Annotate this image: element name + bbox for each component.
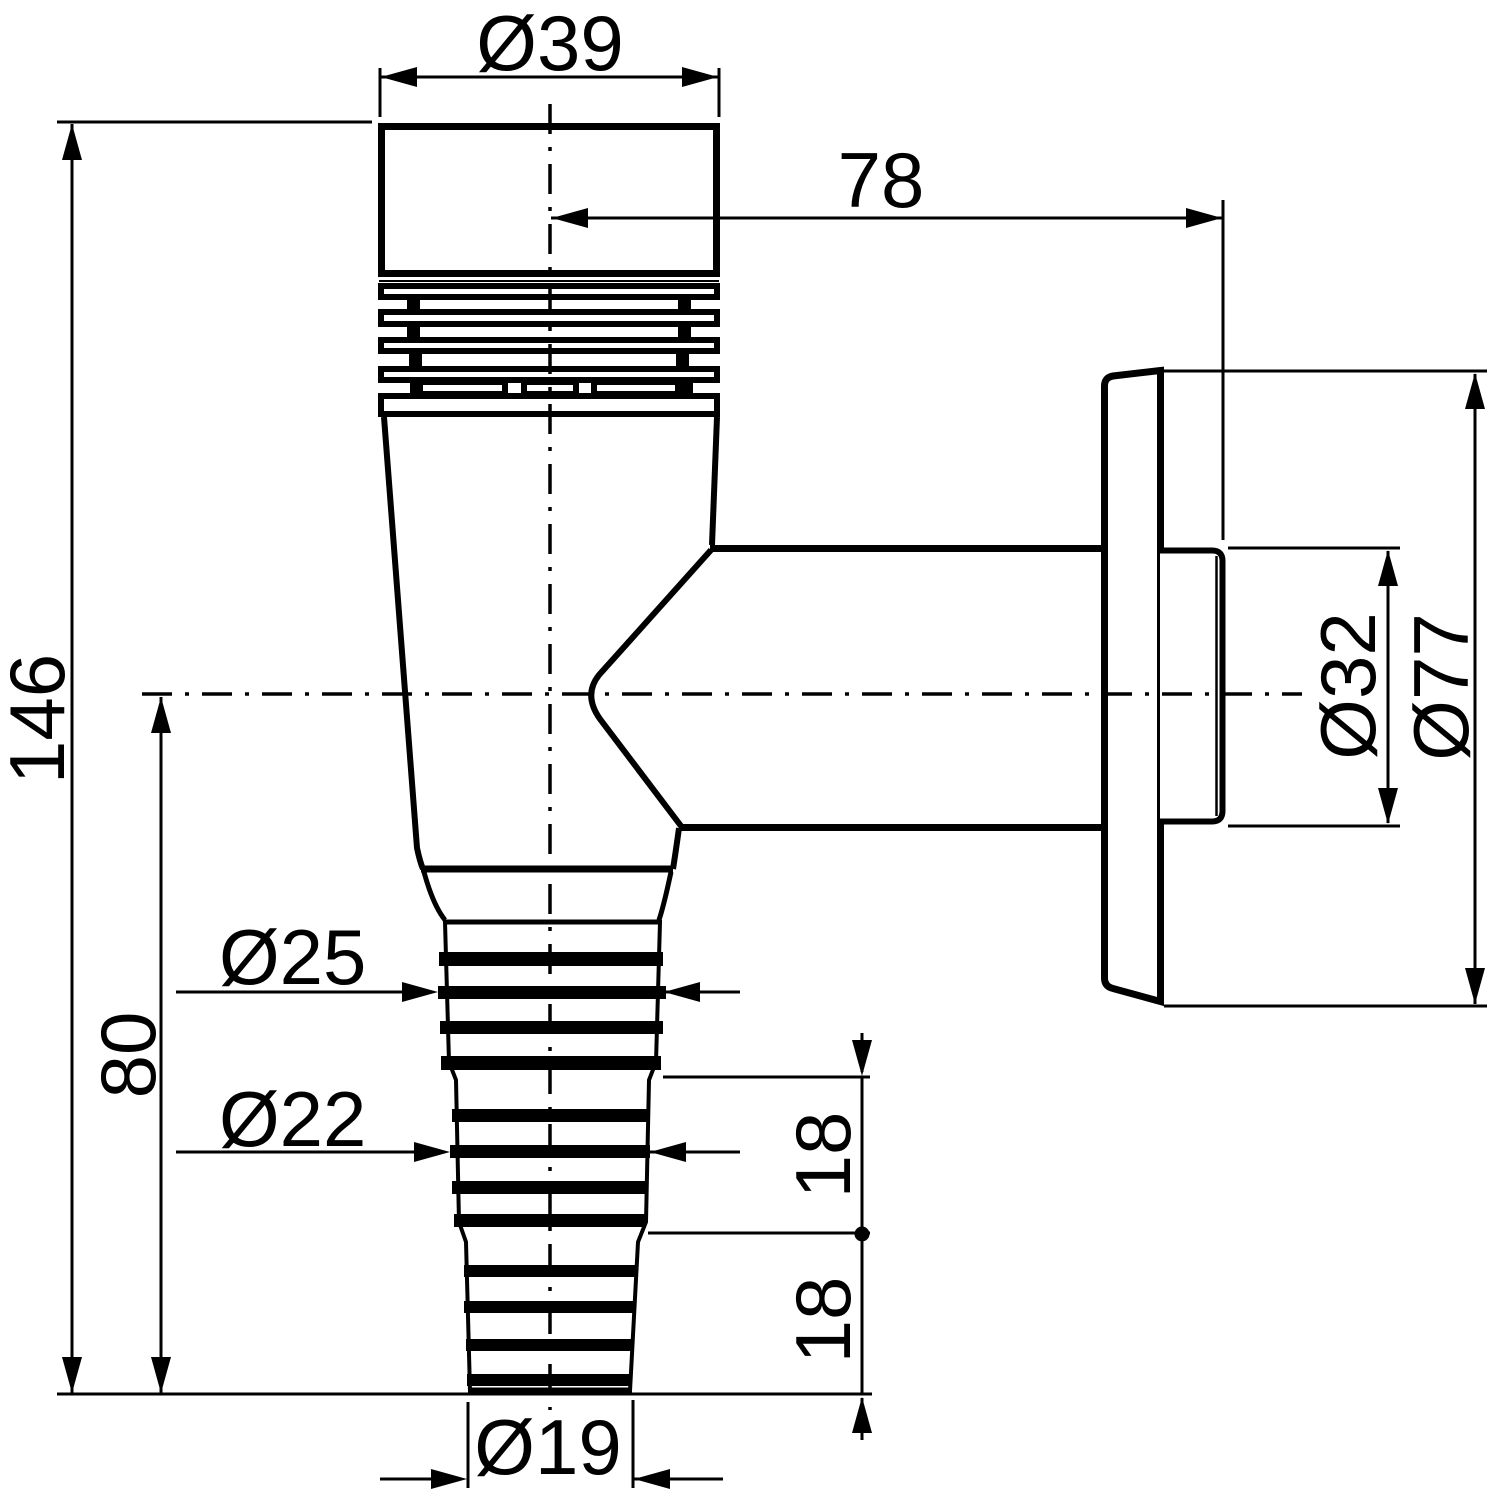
hose cone top line — [445, 920, 660, 925]
pipe stub through flange — [1160, 551, 1223, 822]
horizontal centerline — [142, 692, 1302, 696]
dim Ø77 extension lines — [1164, 370, 1487, 373]
svg-text:Ø25: Ø25 — [219, 913, 366, 1001]
hose cone bottom edge — [469, 1388, 631, 1395]
grill slat row 5 — [381, 396, 717, 414]
dim 146 extension line top — [57, 121, 372, 124]
cap (top cylinder body) — [379, 127, 719, 282]
dim 146 arrows — [62, 124, 82, 160]
grill slat row 4 — [381, 369, 717, 380]
dim Ø39 extension lines — [379, 68, 382, 117]
grill slat row 2 — [381, 312, 717, 324]
dim Ø19 extension lines — [467, 1402, 470, 1488]
bottom shared extension line — [57, 1393, 872, 1396]
grill connector stubs left — [407, 296, 423, 397]
dim 78 extension line — [1222, 200, 1225, 540]
dim Ø32 line — [1387, 551, 1390, 823]
grill bottom plate right — [594, 382, 690, 394]
grill bottom plate middle — [524, 382, 576, 394]
dim Ø32 arrows — [1378, 550, 1398, 586]
dim 78 arrows — [552, 208, 588, 228]
svg-text:80: 80 — [84, 1012, 172, 1099]
svg-text:146: 146 — [0, 654, 81, 784]
wall flange plate — [1105, 371, 1161, 1002]
dim Ø39 line — [380, 76, 719, 79]
outlet pipe top edge — [710, 545, 1106, 552]
body right edge below pipe — [673, 828, 679, 869]
dim Ø39 arrows — [381, 67, 417, 87]
svg-text:Ø77: Ø77 — [1397, 613, 1485, 760]
body-to-pipe chevron transition — [591, 550, 711, 826]
svg-text:Ø22: Ø22 — [219, 1075, 366, 1163]
dim 18 boundary line middle — [648, 1232, 870, 1235]
collar left side — [424, 872, 445, 920]
dim 78 line — [551, 217, 1223, 220]
dim Ø77 line — [1474, 374, 1477, 1004]
vertical centerline — [548, 104, 552, 1410]
outlet pipe bottom edge — [679, 824, 1106, 831]
grill bottom plate left — [415, 382, 505, 394]
dim 18 boundary line upper — [663, 1076, 870, 1079]
hose cone outline — [445, 922, 660, 1391]
dim 146 line — [71, 124, 74, 1393]
tapered body left edge — [384, 417, 423, 869]
dim Ø25 line right — [665, 991, 740, 994]
svg-text:18: 18 — [779, 1112, 867, 1199]
collar top line — [421, 866, 673, 873]
stub chamfer line — [1215, 556, 1218, 816]
dim 18 vertical line — [861, 1033, 864, 1072]
svg-text:18: 18 — [779, 1277, 867, 1364]
dim Ø77 arrows — [1465, 373, 1485, 409]
dim 80 arrows — [151, 697, 171, 733]
dim Ø22 line left — [176, 1151, 432, 1154]
dim 18 junction dot — [855, 1227, 870, 1242]
dim Ø25 line left — [176, 991, 420, 994]
dim 18 arrows — [852, 1040, 872, 1076]
hose cone barb ribs — [438, 952, 666, 1386]
grill connector stubs right — [675, 296, 691, 397]
dim Ø22 line right — [650, 1151, 740, 1154]
svg-text:78: 78 — [838, 136, 925, 224]
dim Ø32 extension lines — [1228, 547, 1400, 550]
collar right side — [659, 872, 671, 920]
svg-text:Ø39: Ø39 — [476, 0, 623, 87]
grill slat row 1 — [381, 286, 717, 297]
tapered body right edge — [712, 417, 717, 545]
dim Ø19 line left — [380, 1478, 450, 1481]
dim Ø19 line right — [634, 1478, 723, 1481]
grill slat row 3 — [381, 340, 717, 351]
svg-text:Ø19: Ø19 — [474, 1403, 621, 1491]
dim 80 line — [160, 697, 163, 1393]
svg-text:Ø32: Ø32 — [1304, 612, 1392, 759]
